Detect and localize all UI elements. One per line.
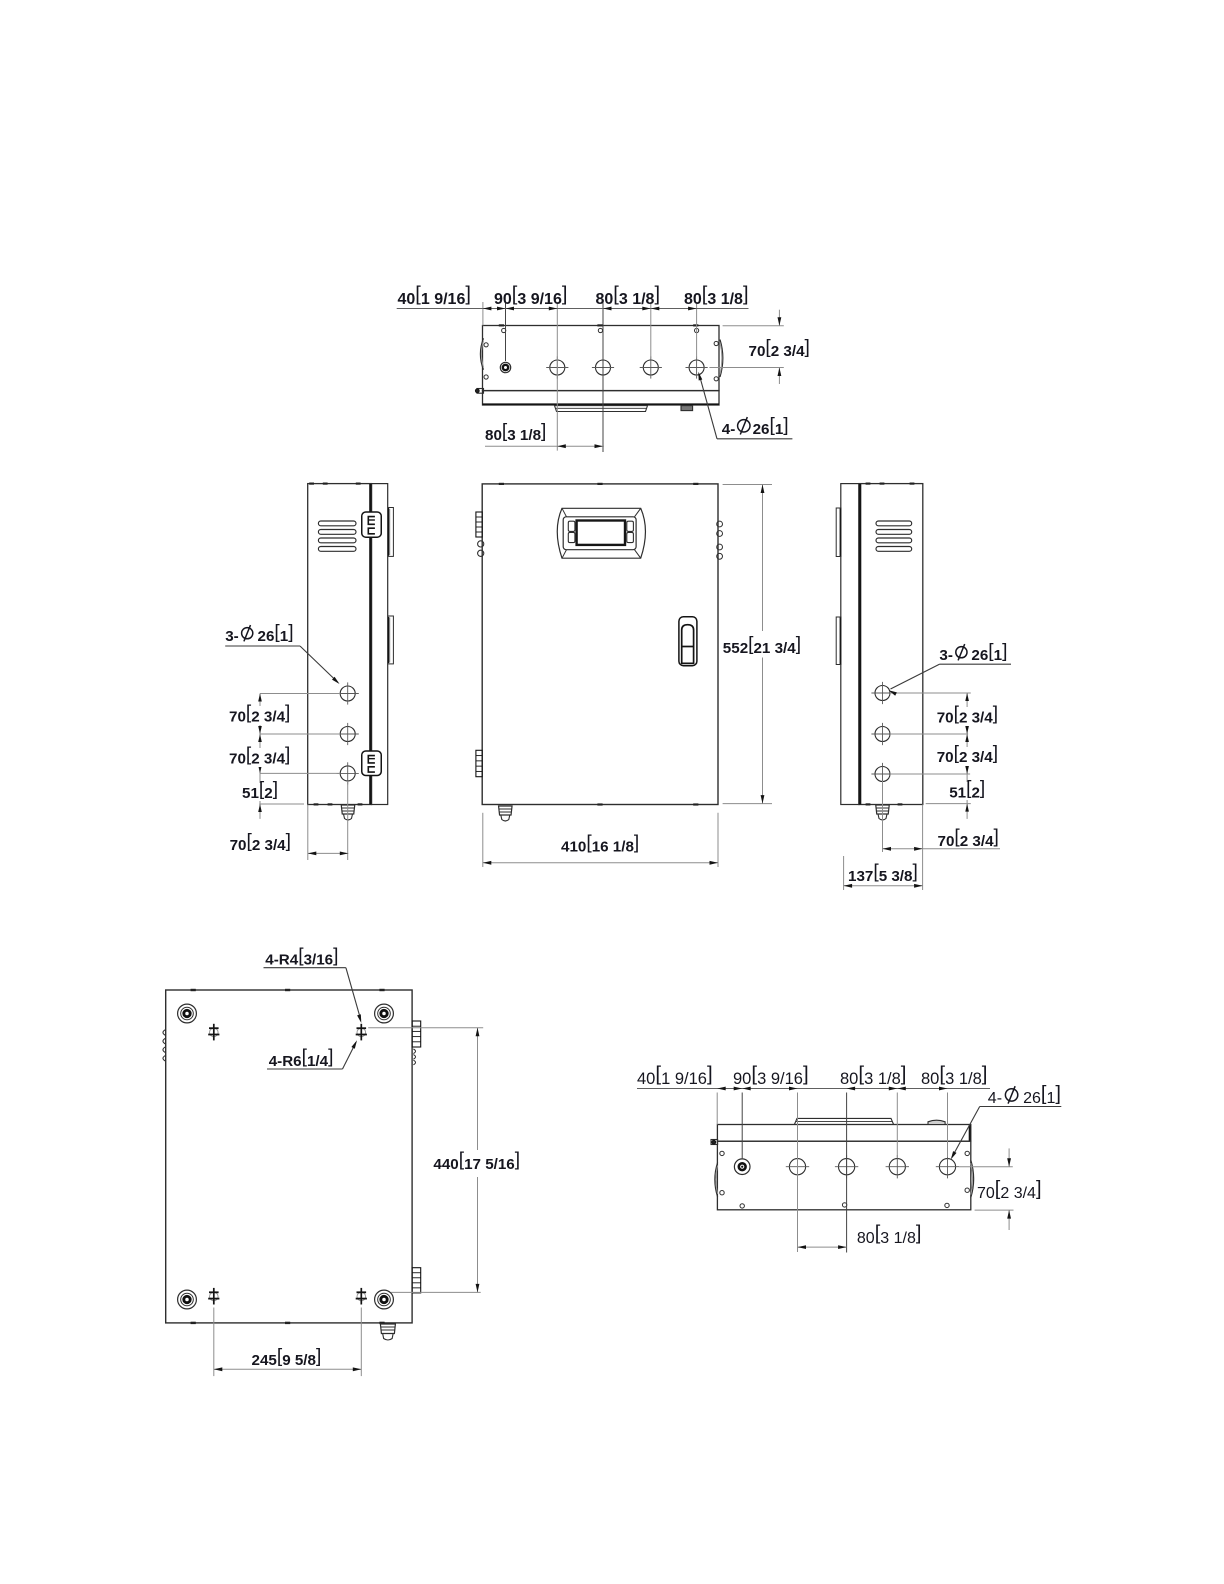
top view: mounting hole H4: [643, 360, 658, 375]
top view: mounting hole H2: [550, 360, 565, 375]
right view: bottom bolt: [876, 805, 890, 814]
top view: bottom plate lip: [555, 406, 648, 412]
left view: clip bottom: [362, 751, 382, 776]
top dim 70 right: dimension line + arrows: [778, 310, 780, 326]
back dim 440: dimension line: [477, 1028, 479, 1150]
left label 70 a: [226, 706, 294, 725]
back view: left louver bumps: [163, 1030, 166, 1036]
left view: main body: [308, 484, 372, 805]
front dim 410: dimension line: [483, 862, 718, 864]
right view: louvers: [876, 521, 912, 526]
right view: hole C: [875, 767, 890, 782]
bottom view: hole H4: [889, 1159, 905, 1175]
right view: hinge bar top: [836, 508, 841, 557]
front view: hinge bottom-left: [476, 750, 482, 776]
front view: hinge bumps: [478, 541, 484, 547]
back view: corner rivet TL: [178, 1004, 197, 1023]
bottom dim 70: dimension line: [1008, 1148, 1010, 1166]
bottom dims: extension lines vertical: [716, 1093, 718, 1125]
right label 70 a: [934, 707, 1002, 726]
back view: bottom bolt: [380, 1324, 395, 1334]
front view: display bezel outer: [557, 508, 645, 558]
back view: right hinge ladder bottom: [412, 1268, 421, 1293]
back view: right bump arcs: [413, 1049, 415, 1054]
right label 51: [946, 782, 986, 800]
svg-text:4-: 4-: [988, 1090, 1002, 1107]
top view: enclosure body outline: [483, 326, 720, 391]
front view: hinge top-left: [476, 512, 482, 537]
top view: small dark tab: [681, 406, 693, 411]
front dim 410: extension lines: [482, 813, 484, 867]
front view: cabinet outline: [482, 484, 718, 805]
left view: hinge bar bottom: [388, 616, 393, 664]
top view: mounting hole H3: [596, 360, 611, 375]
left label 3-phi26: [222, 626, 298, 646]
bottom view: lid band: [717, 1125, 970, 1142]
front view: display buttons right: [627, 521, 634, 531]
front view: cable gland bolt: [499, 806, 513, 815]
left view: louvers: [318, 521, 356, 526]
right leader 3-phi26: [939, 663, 1011, 665]
left dims: vertical dimension line: [259, 694, 261, 819]
left bottom dim 70: [307, 805, 309, 861]
left view: clip top: [362, 512, 382, 537]
front view: display inner frame: [563, 517, 636, 550]
bottom dim 80: dimension line: [798, 1246, 847, 1248]
bottom view: body outline: [717, 1141, 970, 1210]
top dim 70 right: extension lines: [723, 325, 784, 327]
right view: hole B: [875, 727, 890, 742]
bottom dim 70: extension lines: [959, 1166, 1013, 1168]
top view: left side clip arc: [480, 338, 483, 369]
left label 51: [239, 783, 281, 801]
bottom dims: horizontal dimension line: [637, 1088, 990, 1090]
top view: lid band: [483, 391, 720, 405]
back view: corner rivet BR: [375, 1290, 394, 1309]
back view: screw BL: [210, 1292, 219, 1301]
bottom view: small tab: [928, 1120, 945, 1124]
right dims: vertical dimension line: [966, 693, 968, 819]
top view: left pin: [477, 389, 484, 394]
front view: display buttons left: [568, 521, 575, 531]
front view: door handle outer: [679, 617, 697, 666]
svg-text:3-: 3-: [225, 628, 239, 645]
right view: door panel: [841, 484, 859, 805]
left view: bottom bolt: [341, 805, 355, 814]
left view: hole C: [340, 766, 355, 781]
front dim 552: dimension line: [762, 485, 764, 632]
top leader 4-phi26: [717, 438, 792, 440]
back leader 4-R4: [264, 967, 346, 969]
front view: right edge clip bumps: [717, 521, 723, 527]
right label 70 b: [934, 747, 1002, 766]
left leader 3-phi26: [225, 645, 300, 647]
bottom view: hole H5: [939, 1159, 955, 1175]
svg-text:3-: 3-: [939, 647, 953, 664]
bottom view: right clip arc: [971, 1160, 974, 1198]
back view: screw TR: [357, 1028, 366, 1037]
bottom view: hole H1 bullseye: [734, 1159, 750, 1175]
top dim: horizontal dimension line: [397, 308, 749, 310]
right dim 137: [843, 856, 845, 890]
right view: hole A: [875, 686, 890, 701]
front view: bottom edge nubs: [597, 803, 602, 805]
left view: hole A: [340, 686, 355, 701]
front dim label 552: [721, 632, 807, 657]
right view: hinge bar bottom: [836, 617, 841, 665]
top view: mounting hole H1 bullseye: [500, 362, 510, 372]
left view: door panel: [372, 484, 388, 805]
back dim 440: extension lines: [368, 1027, 483, 1029]
right view: door separation thick edge: [859, 484, 861, 805]
bottom view: lid plate lip: [794, 1118, 893, 1124]
back dim 245: extension lines: [213, 1308, 215, 1377]
bottom view: hole H2: [789, 1159, 805, 1175]
back dim 245: dimension line: [214, 1368, 361, 1370]
right bottom dim 70: [882, 781, 884, 852]
left view: hole B: [340, 727, 355, 742]
back view: edge nubs: [191, 989, 196, 991]
back leader 4-R6: [267, 1068, 343, 1070]
bottom view: left clip arc: [715, 1163, 718, 1197]
bottom view: left pin: [711, 1140, 718, 1145]
bottom leader 4-phi26: [980, 1106, 1062, 1108]
top view: mounting hole H5: [689, 360, 704, 375]
top view: edge nubs: [499, 324, 504, 326]
left dims: hole extension lines: [260, 693, 340, 695]
top dim: extension lines vertical: [482, 302, 484, 326]
top view: rivet holes: [502, 328, 506, 332]
front view: display screen: [577, 521, 625, 545]
back view: corner rivet TR: [375, 1004, 394, 1023]
front view: door handle inner: [682, 625, 694, 664]
back view: right hinge ladder top: [412, 1021, 421, 1047]
left view: hinge bar top: [388, 508, 393, 557]
bottom view: hole H3: [839, 1159, 855, 1175]
front view: top edge nubs: [499, 483, 504, 485]
right view: edge nubs: [866, 483, 871, 485]
left view: edge nubs: [309, 483, 314, 485]
back view: screw TL: [210, 1028, 219, 1037]
top view: right side clip arc: [720, 340, 723, 377]
left label 70 b: [226, 748, 294, 767]
svg-text:4-: 4-: [722, 421, 736, 438]
right view: main body: [859, 484, 923, 805]
right dims: hole extension lines: [890, 692, 971, 694]
back view: screw BR: [357, 1292, 366, 1301]
front dim 552: extension lines: [723, 484, 772, 486]
back view: outline: [166, 990, 412, 1323]
top dim 80 bottom: dimension line: [485, 445, 604, 447]
front view: display bezel corner bevels: [562, 508, 567, 517]
back view: corner rivet BL: [178, 1290, 197, 1309]
bottom view: rivet holes: [720, 1151, 724, 1155]
left view: door separation thick edge: [369, 484, 371, 805]
